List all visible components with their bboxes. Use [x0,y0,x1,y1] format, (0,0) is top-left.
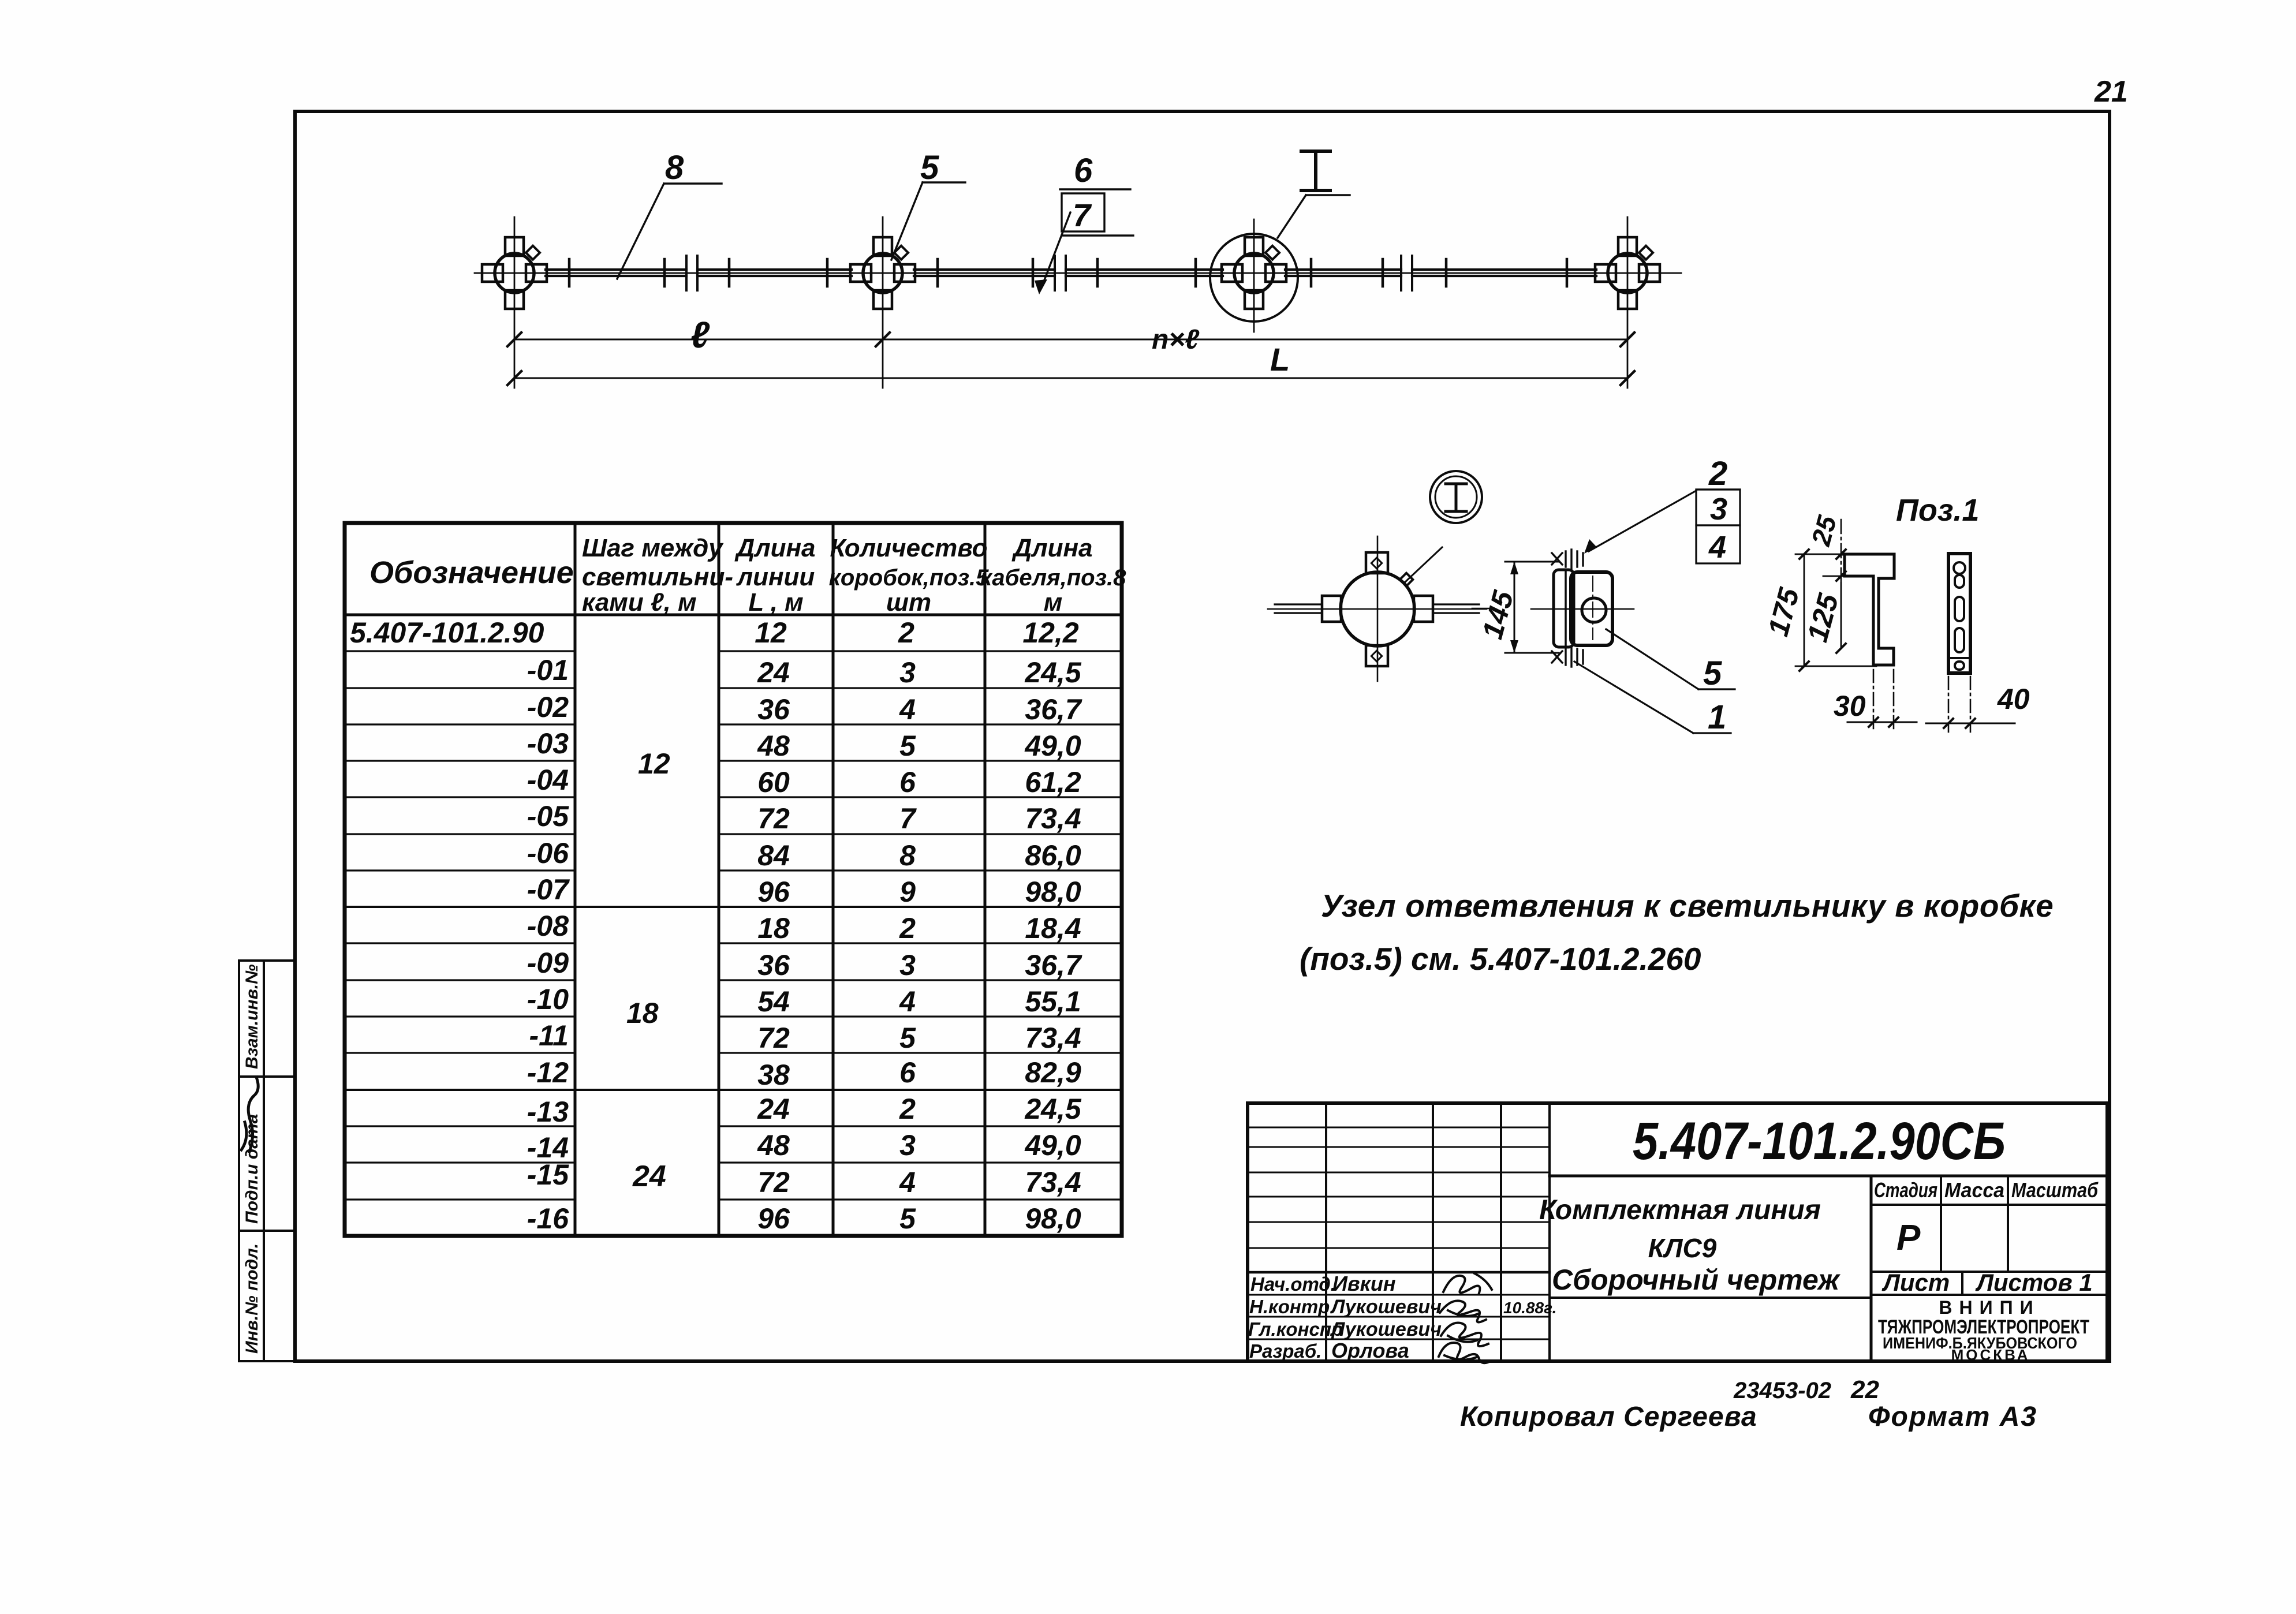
svg-text:КЛС9: КЛС9 [1648,1233,1717,1263]
span 3 break symbol [1401,256,1412,290]
detail plan: left cable gland [1322,596,1341,622]
callout 5 leader [891,182,923,260]
dimension 40 [1948,677,1950,732]
dimension 25 [1840,520,1842,583]
svg-text:ВНИПИ: ВНИПИ [1939,1297,2040,1318]
detail side: box hole [1582,598,1606,622]
detail side: box body [1571,572,1612,645]
list row [1871,1271,2107,1273]
svg-text:12,2: 12,2 [1022,617,1079,649]
svg-text:Масса: Масса [1944,1178,2004,1202]
svg-text:60: 60 [757,766,790,798]
svg-text:-07: -07 [527,873,570,906]
svg-text:Лукошевич: Лукошевич [1330,1318,1442,1340]
organisation name block [1878,1297,2089,1363]
svg-text:49,0: 49,0 [1024,730,1081,762]
title block outer border [1248,1103,2107,1361]
svg-text:61,2: 61,2 [1025,766,1081,798]
svg-text:48: 48 [757,730,790,762]
cable span 3 [1285,270,1596,276]
dim slash at B2 [876,332,890,346]
svg-text:МОСКВА: МОСКВА [1951,1346,2030,1363]
svg-text:коробок,поз.5: коробок,поз.5 [829,565,990,591]
detail side: vertical centerline [1592,576,1593,640]
svg-text:Комплектная линия: Комплектная линия [1539,1195,1821,1226]
signature squiggle row1 [1443,1273,1492,1293]
svg-text:54: 54 [757,985,790,1018]
svg-text:1: 1 [1708,698,1726,736]
svg-text:-11: -11 [529,1019,569,1052]
svg-text:Сборочный чертеж: Сборочный чертеж [1552,1264,1840,1296]
cable span 1 [546,270,852,276]
svg-text:8: 8 [899,839,916,872]
svg-text:24: 24 [757,1093,790,1125]
svg-text:5: 5 [899,1022,916,1054]
svg-text:Обозначение: Обозначение [369,555,574,590]
callout 6/7 leader arrow [1041,212,1070,287]
detail plan: junction box circle [1341,572,1414,646]
name cell bottom line [1550,1297,1871,1299]
svg-text:6: 6 [899,1056,916,1089]
table header text [369,534,1126,617]
svg-text:линии: линии [736,563,815,591]
span 2 break symbol [1055,256,1066,290]
svg-text:Н.контр: Н.контр [1249,1296,1330,1317]
pos1 side plate [1948,554,1970,673]
svg-text:5: 5 [899,1202,916,1235]
callout 5 leader (detail) [1606,629,1698,689]
callout 2/3/4 leader arrow [1589,491,1696,551]
svg-text:Взам.инв.№: Взам.инв.№ [242,965,262,1069]
span 3 tick marks [1311,259,1567,286]
document number 23453-02 22 [1733,1376,1879,1404]
detail plan: right cable [1433,604,1479,613]
svg-text:Гл.конспр: Гл.конспр [1248,1318,1343,1340]
svg-text:73,4: 73,4 [1025,802,1081,835]
detail circle I around B3 [1210,234,1298,322]
svg-text:5: 5 [1703,655,1722,692]
dimension 30 [1873,670,1875,728]
svg-text:L , м: L , м [748,588,803,617]
svg-text:Нач.отд.: Нач.отд. [1250,1273,1336,1295]
leader from plan box to detail mark [1404,547,1442,583]
pos1 front view outline [1841,554,1894,665]
callout 8 leader [617,184,664,279]
signature squiggle row4 [1439,1343,1491,1363]
dimension 175 [1804,554,1805,666]
dimension line L [514,378,1627,379]
svg-text:40: 40 [1997,683,2030,715]
junction box B4 [1595,237,1660,309]
svg-text:18: 18 [757,912,790,944]
title block left grid verticals [1326,1103,1550,1361]
svg-text:м: м [1044,588,1063,617]
callout 8 underline [664,182,722,184]
signature squiggle row3 [1441,1322,1488,1346]
svg-text:3: 3 [1710,492,1727,526]
svg-text:55,1: 55,1 [1025,985,1081,1018]
dimension 145 [1514,562,1515,653]
svg-text:3: 3 [899,656,916,689]
svg-text:Поз.1: Поз.1 [1896,493,1979,528]
svg-text:8: 8 [665,149,684,186]
svg-text:-10: -10 [527,983,569,1015]
signature squiggle row2 [1440,1301,1486,1322]
svg-text:-12: -12 [527,1056,569,1089]
drawing border frame [295,111,2110,1361]
detail plan: right cable gland [1414,596,1433,622]
centerline of B3 [1253,219,1255,332]
main horizontal centerline [475,272,1681,274]
svg-text:-04: -04 [527,764,569,796]
svg-text:9: 9 [899,876,916,908]
junction box B3 [1222,237,1286,309]
detail plan: crosshair centerlines [1268,608,1487,610]
svg-text:n×ℓ: n×ℓ [1152,324,1199,355]
callout 6 underline [1060,188,1130,190]
junction box B2 [850,237,915,309]
vertical divider right of name cell [1870,1176,1873,1361]
svg-text:Лукошевич: Лукошевич [1330,1296,1442,1318]
svg-text:-09: -09 [527,947,569,979]
svg-text:Орлова: Орлова [1331,1339,1409,1362]
svg-text:Копировал Сергеева: Копировал Сергеева [1460,1402,1757,1432]
table row lines (designation column) [345,651,575,1200]
svg-text:-01: -01 [527,654,569,686]
svg-text:18: 18 [626,997,659,1029]
svg-text:2: 2 [899,1093,916,1125]
section mark I leader [1278,195,1306,238]
svg-text:72: 72 [757,1022,790,1054]
dim slash at B1 [507,332,521,346]
detail plan: top lug [1366,552,1388,573]
svg-text:3: 3 [899,1129,916,1161]
callout 7 under-box line [1062,234,1133,236]
svg-text:96: 96 [757,1202,790,1235]
svg-text:Р: Р [1896,1218,1921,1258]
svg-text:-13: -13 [527,1096,569,1128]
dim slash left end of L-line [507,371,521,385]
svg-text:84: 84 [757,839,790,872]
svg-text:36,7: 36,7 [1025,693,1082,726]
table header bottom line [345,614,1122,617]
detail side: bottom weld marks [1552,648,1583,667]
centerline stub left of 145 dim [1472,608,1493,610]
svg-text:-16: -16 [527,1202,569,1235]
svg-text:4: 4 [899,1166,916,1198]
callout 7 frame box [1062,193,1104,231]
span 1 tick marks [569,259,827,286]
svg-text:Формат А3: Формат А3 [1868,1402,2037,1432]
svg-text:12: 12 [755,617,787,649]
svg-text:18,4: 18,4 [1025,912,1081,944]
svg-text:-08: -08 [527,910,569,942]
detail side: horizontal centerline [1531,608,1634,610]
svg-text:Стадия: Стадия [1874,1178,1937,1202]
callout 1 leader (detail) [1574,662,1693,733]
svg-text:24: 24 [632,1160,666,1193]
svg-text:шт: шт [886,588,931,617]
svg-text:2: 2 [1708,455,1727,492]
table step group values 12 18 24 [626,748,670,1193]
svg-text:30: 30 [1834,690,1866,722]
svg-text:36: 36 [757,949,790,981]
dim slash right end of l-line [1621,332,1634,346]
svg-text:Количество: Количество [830,534,987,562]
svg-text:38: 38 [757,1059,790,1091]
drawing name text [1539,1195,1840,1296]
svg-text:12: 12 [638,748,670,780]
svg-text:7: 7 [899,802,917,835]
svg-text:-15: -15 [527,1159,569,1191]
table data rows [350,617,1082,1235]
svg-text:24,5: 24,5 [1024,656,1082,689]
svg-text:98,0: 98,0 [1025,1202,1081,1235]
centerline of B2 [882,217,884,388]
detail I circled mark [1430,471,1482,523]
svg-text:Длина: Длина [734,534,815,562]
centerline of B4 [1627,217,1629,388]
specification table outer border [345,523,1122,1236]
svg-text:98,0: 98,0 [1025,876,1081,908]
svg-text:6: 6 [1074,152,1093,189]
svg-text:73,4: 73,4 [1025,1166,1081,1198]
svg-text:96: 96 [757,876,790,908]
section mark I glyph [1301,151,1330,190]
svg-text:72: 72 [757,1166,790,1198]
svg-text:ℓ: ℓ [690,314,710,356]
svg-text:3: 3 [899,949,916,981]
svg-text:Лист: Лист [1881,1269,1950,1296]
detail side: bracket channel [1554,570,1574,647]
svg-text:-03: -03 [527,727,569,760]
stadia massa masshtab header [1871,1204,2107,1206]
title block left grid rows [1248,1127,1550,1339]
svg-text:Инв.№ подл.: Инв.№ подл. [242,1243,262,1354]
svg-text:-02: -02 [527,691,569,723]
strip handwritten scrawl [241,1077,258,1152]
svg-text:Листов 1: Листов 1 [1975,1269,2093,1296]
svg-text:4: 4 [1708,530,1726,565]
span 1 break symbol [686,256,697,290]
svg-text:Шаг между: Шаг между [582,534,724,562]
svg-text:24,5: 24,5 [1024,1093,1082,1125]
svg-text:5.407-101.2.90: 5.407-101.2.90 [350,617,544,649]
svg-text:2: 2 [899,912,916,944]
svg-text:73,4: 73,4 [1025,1022,1081,1054]
detail side: top weld marks [1552,550,1583,569]
span 2 tick marks [938,259,1196,286]
dimension line l / nxl [514,339,1627,341]
svg-text:23453-02: 23453-02 [1733,1378,1831,1403]
svg-text:48: 48 [757,1129,790,1161]
svg-text:-05: -05 [527,800,569,832]
svg-text:5: 5 [920,149,939,186]
svg-text:кабеля,поз.8: кабеля,поз.8 [980,565,1126,591]
svg-text:-06: -06 [527,837,569,869]
section mark I underline [1306,194,1350,196]
detail plan: nub [1400,573,1413,586]
svg-text:7: 7 [1073,197,1092,233]
callout 5 underline [923,181,965,183]
svg-text:82,9: 82,9 [1025,1056,1081,1089]
svg-text:2: 2 [898,617,914,649]
svg-text:4: 4 [899,985,916,1018]
detail plan: left cable [1275,604,1322,613]
svg-text:6: 6 [899,766,916,798]
svg-text:21: 21 [2094,75,2128,109]
dim slash right end of L-line [1621,371,1634,385]
svg-text:36,7: 36,7 [1025,949,1082,981]
svg-text:5: 5 [899,730,916,762]
svg-text:(поз.5) см. 5.407-101.2.260: (поз.5) см. 5.407-101.2.260 [1300,941,1701,977]
svg-text:Разраб.: Разраб. [1249,1340,1321,1362]
svg-text:светильни-: светильни- [582,563,733,591]
svg-text:Масштаб: Масштаб [2011,1178,2099,1202]
svg-text:49,0: 49,0 [1024,1129,1081,1161]
svg-text:5.407-101.2.90СБ: 5.407-101.2.90СБ [1633,1112,2006,1171]
svg-text:24: 24 [757,656,790,689]
svg-text:22: 22 [1850,1376,1879,1404]
signature rows text [1248,1272,1556,1362]
left margin stamp strip [239,961,295,1361]
cable span 2 [914,270,1223,276]
svg-text:L: L [1270,341,1290,378]
svg-text:ками ℓ, м: ками ℓ, м [582,588,697,617]
svg-text:72: 72 [757,802,790,835]
centerline of B1 [514,217,516,388]
dimension 125 [1823,576,1850,577]
designation cell divider [1550,1175,2107,1178]
table row lines (value columns) [719,651,1122,1200]
svg-text:86,0: 86,0 [1025,839,1081,872]
pos1 plate slots [1954,562,1965,574]
svg-text:36: 36 [757,693,790,726]
table column lines [575,523,985,1236]
svg-text:4: 4 [899,693,916,726]
table group separator lines [345,907,1122,1090]
svg-text:Узел ответвления к светильник: Узел ответвления к светильнику в коробке [1321,888,2054,924]
svg-text:Длина: Длина [1011,534,1092,562]
junction box B1 [482,237,547,309]
svg-text:Ивкин: Ивкин [1332,1272,1396,1295]
svg-text:10.88г.: 10.88г. [1503,1299,1556,1317]
detail plan: bottom lug [1366,645,1388,666]
